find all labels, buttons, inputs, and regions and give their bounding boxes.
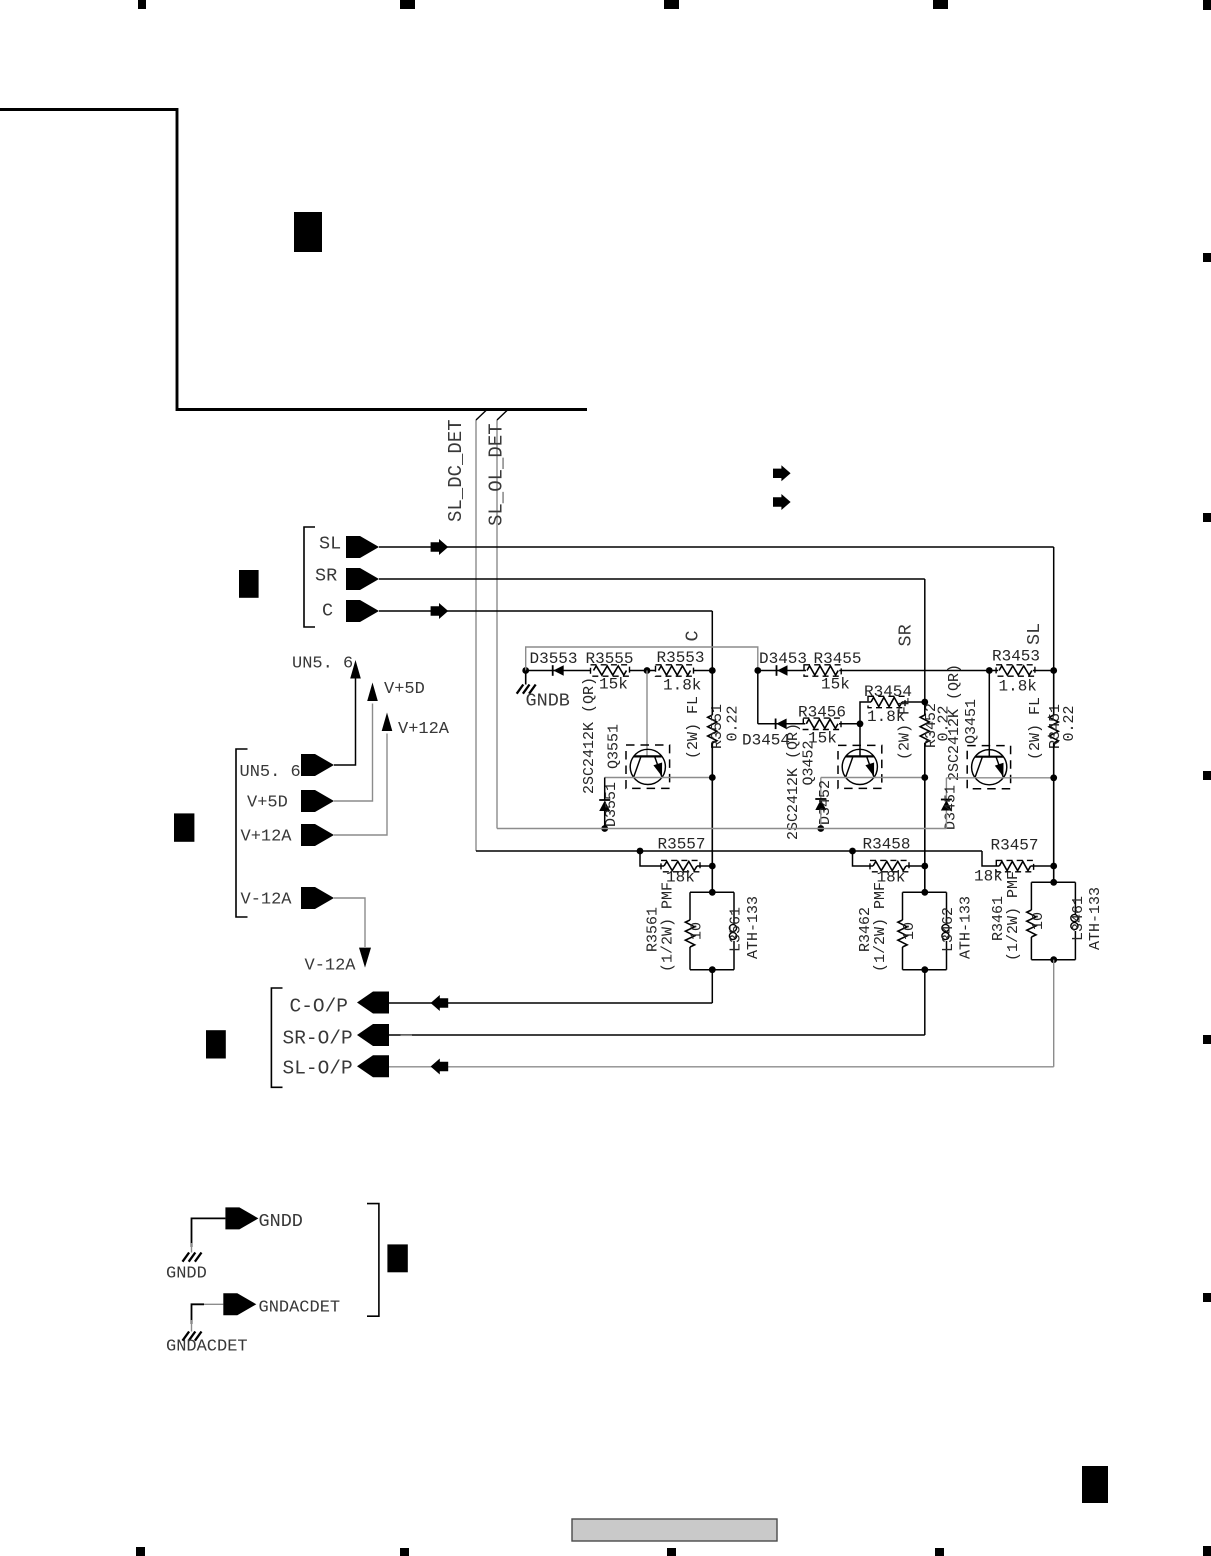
wire D3451 bottom gray (945, 811, 947, 829)
connector V-12A (301, 887, 334, 909)
transistor Q3551 (630, 749, 665, 784)
bottom right block (1082, 1466, 1108, 1503)
registration mark top 4 (933, 0, 948, 9)
wire D3452 bottom gray (820, 810, 822, 829)
wire SL-O/P gray (389, 1066, 1054, 1068)
wire D3452 top gray (820, 778, 822, 800)
connector SL (346, 536, 379, 558)
inductor L3561 (733, 892, 735, 924)
svg-text:V+5D: V+5D (384, 680, 425, 699)
connector SL-O/P (357, 1055, 389, 1077)
svg-text:UN5. 6: UN5. 6 (292, 654, 353, 673)
wire SL_OL_DET vertical (496, 420, 498, 829)
wire GNDACDET ground stub gray (191, 1320, 193, 1332)
marker square near inputs (239, 570, 259, 598)
L3561 R3561 parallel network (690, 891, 734, 893)
svg-text:ATH-133: ATH-133 (958, 896, 975, 959)
svg-text:1.8k: 1.8k (663, 677, 701, 695)
wire SL sense line mid (1053, 671, 1055, 716)
signal arrow on SL wire (431, 539, 449, 555)
resistor R3458 branch (853, 851, 874, 866)
svg-text:C: C (322, 601, 333, 622)
registration mark bottom 3 (667, 1548, 676, 1556)
transistor Q3451 (972, 750, 1007, 785)
svg-text:2SC2412K (QR): 2SC2412K (QR) (946, 664, 963, 781)
node SR base junction (857, 720, 864, 727)
wire C sense line mid (711, 671, 713, 716)
svg-text:10: 10 (1030, 912, 1047, 930)
dashed box R3453 (996, 665, 1035, 676)
wire Q3551 base gray (646, 671, 648, 757)
node L3462 top (921, 889, 928, 896)
wire SL output stub gray (1053, 960, 1055, 1067)
wire SL input (379, 546, 1054, 548)
L3462 R3462 parallel network (903, 891, 947, 893)
net entry slash SL_OL_DET (497, 410, 508, 420)
svg-text:GNDD: GNDD (166, 1265, 207, 1284)
dashed box R3454 (868, 696, 905, 707)
node GNDB junction (522, 667, 529, 674)
node C base junction (644, 667, 651, 674)
diode D3453 (776, 665, 778, 676)
resistor R3456 (805, 718, 839, 729)
node C line top (709, 667, 716, 674)
connector GNDACDET (223, 1293, 256, 1315)
dashed box Q3451 (967, 746, 1010, 789)
node SR line top (921, 699, 928, 706)
node R3557 left (637, 848, 644, 855)
connector V+12A (301, 824, 334, 846)
resistor R3454 branch (860, 702, 871, 724)
inductor L3461 (1074, 882, 1076, 914)
svg-text:R3456: R3456 (798, 704, 846, 722)
signal arrow on C wire (431, 603, 449, 619)
node C emitter (709, 774, 716, 781)
svg-text:L3462: L3462 (940, 907, 957, 952)
ground GNDB (525, 671, 527, 685)
dashed box Q3551 (626, 745, 670, 788)
wire GNDD ground stub gray (191, 1243, 193, 1253)
footer gray box (572, 1519, 777, 1541)
sheet border frame (0, 110, 587, 410)
svg-text:R3455: R3455 (814, 650, 862, 668)
wire SR row2 (758, 723, 860, 725)
marker square near grounds (387, 1244, 407, 1272)
wire C output stub (711, 970, 713, 1003)
svg-text:Q3451: Q3451 (963, 699, 980, 744)
power arrow V+5D (367, 683, 378, 702)
node L3461 bottom (1050, 956, 1057, 963)
wire C-O/P (389, 1002, 712, 1004)
power arrow UN5.6 (350, 660, 361, 679)
inductor L3462 (946, 892, 948, 924)
registration mark top 2 (400, 0, 415, 9)
power arrow V-12A down (359, 948, 371, 968)
resistor R3453 (998, 665, 1033, 676)
registration mark bottom 4 (935, 1548, 944, 1556)
wire D3551 bottom (604, 811, 606, 829)
dashed box R3555 (591, 665, 630, 676)
node D3452 on OL bus (817, 825, 824, 832)
resistor R3557 branch (640, 851, 664, 866)
svg-text:V+12A: V+12A (241, 828, 293, 847)
svg-text:SR: SR (896, 624, 917, 646)
svg-text:(2W) FL: (2W) FL (685, 696, 702, 759)
connector GNDD (225, 1207, 258, 1229)
transistor Q3452 (842, 749, 877, 784)
svg-text:L3461: L3461 (1070, 896, 1087, 941)
L3461 R3461 parallel network (1031, 881, 1075, 883)
wire gray C-link (526, 647, 758, 671)
wire SR sense line mid (924, 702, 926, 715)
svg-text:V-12A: V-12A (305, 957, 357, 976)
resistor R3455 (806, 665, 839, 676)
svg-text:R3553: R3553 (657, 649, 705, 667)
svg-text:SL_OL_DET: SL_OL_DET (486, 423, 508, 526)
node L3561 bottom (709, 966, 716, 973)
wire D3451 top gray (945, 778, 947, 800)
svg-text:SL-O/P: SL-O/P (283, 1058, 353, 1080)
connector C (346, 600, 379, 622)
svg-text:R3555: R3555 (586, 650, 634, 668)
svg-text:C-O/P: C-O/P (290, 996, 349, 1018)
diode D3551 (599, 799, 610, 801)
node SL base junction (986, 667, 993, 674)
registration mark top right corner (1203, 0, 1211, 10)
registration mark right edge 4 (1203, 1035, 1211, 1044)
resistor R3457 branch (982, 851, 999, 866)
svg-text:UN5. 6: UN5. 6 (240, 763, 301, 782)
wire SR input (379, 578, 925, 580)
svg-text:(2W) FL: (2W) FL (1027, 697, 1044, 760)
svg-text:15k: 15k (599, 676, 628, 694)
node D3551 on OL bus (601, 825, 608, 832)
wire C vertical drop (711, 611, 713, 671)
svg-text:V+12A: V+12A (398, 720, 450, 739)
resistor R3555 (591, 665, 630, 676)
wire V-12A (334, 898, 365, 947)
diode D3451 (941, 799, 952, 801)
resistor R3452 0.22 (920, 715, 929, 743)
marker square near power (174, 813, 194, 841)
off-page arrow 1 (773, 465, 791, 481)
wire SL sense row (989, 670, 1053, 672)
node L3561 top (709, 889, 716, 896)
marker square near outputs (206, 1030, 226, 1058)
svg-text:(1/2W) PMF: (1/2W) PMF (1005, 871, 1022, 961)
svg-text:(1/2W) PMF: (1/2W) PMF (660, 882, 677, 972)
diode D3454 (775, 719, 777, 730)
input group bracket (304, 527, 315, 627)
registration mark bottom 2 (400, 1548, 409, 1556)
resistor R3551 0.22 (708, 715, 717, 743)
wire GNDACDET corner (192, 1304, 205, 1324)
resistor R3451 0.22 (1049, 715, 1058, 743)
connector SR-O/P (357, 1024, 389, 1046)
svg-text:V+5D: V+5D (247, 794, 288, 813)
wire C input (379, 610, 712, 612)
svg-text:L3561: L3561 (728, 907, 745, 952)
wire V+12A (334, 734, 387, 836)
node L3462 bottom (921, 966, 928, 973)
ground group bracket (367, 1204, 379, 1317)
wire SR output stub (924, 970, 926, 1035)
svg-text:ATH-133: ATH-133 (1087, 887, 1104, 950)
registration mark right edge 2 (1203, 513, 1211, 522)
wire GNDD (192, 1218, 226, 1247)
registration mark bottom 1 (136, 1547, 145, 1556)
svg-text:SR: SR (315, 566, 337, 587)
svg-text:18k: 18k (974, 868, 1003, 886)
node SL line top (1050, 667, 1057, 674)
svg-text:2SC2412K (QR): 2SC2412K (QR) (785, 723, 802, 840)
node R3457 right (1050, 863, 1057, 870)
node R3458 right (921, 863, 928, 870)
registration mark top 1 (138, 0, 146, 9)
dashed box R3553 (656, 665, 694, 676)
dashed box R3455 (804, 665, 841, 676)
wire Q3452 base (859, 724, 861, 757)
dashed box R3457 (996, 860, 1033, 871)
wire V+5D (334, 704, 373, 802)
svg-text:SL: SL (319, 534, 341, 555)
signal arrow on SL-O/P wire (431, 1059, 449, 1075)
resistor R3553 (656, 665, 694, 676)
wire Q3551 collector-emitter gray (605, 777, 713, 779)
svg-text:0.22: 0.22 (1061, 705, 1078, 741)
svg-text:D3451: D3451 (943, 785, 960, 830)
svg-text:GNDACDET: GNDACDET (166, 1338, 248, 1357)
registration mark right edge 3 (1203, 771, 1211, 780)
node SR emitter (921, 774, 928, 781)
svg-text:2SC2412K (QR): 2SC2412K (QR) (581, 677, 598, 794)
node R3557 right (709, 863, 716, 870)
node SL emitter (1050, 774, 1057, 781)
wire C sense row (526, 670, 713, 672)
dashed box R3458 (870, 860, 909, 871)
registration mark right edge 1 (1203, 253, 1211, 262)
wire UN5.6 (334, 679, 356, 766)
wire SR diode column (757, 671, 759, 724)
registration mark top 3 (664, 0, 679, 9)
ground GNDACDET (183, 1332, 190, 1341)
svg-text:10: 10 (901, 922, 918, 940)
dashed box R3557 (661, 860, 700, 871)
power arrow V+12A (382, 713, 393, 732)
node L3461 top (1050, 879, 1057, 886)
wire SL_DC_DET vertical (475, 420, 477, 851)
net entry slash SL_DC_DET (476, 410, 487, 420)
svg-text:10: 10 (689, 922, 706, 940)
wire DC detect bus (476, 850, 982, 852)
dashed box R3456 (803, 718, 841, 729)
registration mark right edge 5 (1203, 1293, 1211, 1302)
signal arrow on C-O/P wire (431, 995, 449, 1011)
off-page arrow 2 (773, 494, 791, 510)
wire Q3452 collector-emitter gray (821, 777, 925, 779)
ground GNDD (183, 1253, 190, 1262)
svg-text:GNDB: GNDB (526, 691, 570, 712)
connector C-O/P (357, 992, 389, 1014)
svg-text:R3457: R3457 (991, 837, 1039, 855)
svg-text:D3553: D3553 (530, 650, 578, 668)
section marker block (294, 212, 322, 252)
svg-text:ATH-133: ATH-133 (745, 896, 762, 959)
diode D3553 (552, 665, 554, 676)
svg-text:D3452: D3452 (817, 780, 834, 825)
svg-text:SL: SL (1024, 623, 1045, 645)
svg-text:V-12A: V-12A (241, 891, 293, 910)
svg-text:Q3452: Q3452 (801, 740, 818, 785)
connector V+5D (301, 790, 334, 812)
svg-text:15k: 15k (821, 676, 850, 694)
svg-text:D3454: D3454 (742, 732, 790, 750)
svg-text:D3551: D3551 (603, 782, 620, 827)
svg-text:SL_DC_DET: SL_DC_DET (445, 419, 467, 522)
power group bracket (236, 749, 248, 917)
svg-text:GNDACDET: GNDACDET (259, 1299, 341, 1318)
wire SR sense row (758, 670, 990, 672)
node R3458 left (849, 848, 856, 855)
wire SR-O/P gray overlap dash (401, 1034, 413, 1036)
diode D3452 (815, 798, 826, 800)
svg-text:C: C (683, 630, 704, 641)
wire Q3451 base (988, 671, 990, 757)
svg-text:1.8k: 1.8k (999, 678, 1037, 696)
wire SR-O/P (389, 1034, 925, 1036)
wire OL detect bus gray (497, 828, 946, 830)
connector UN5.6 (301, 754, 334, 776)
node SR row left (754, 667, 761, 674)
output group bracket (271, 988, 282, 1087)
svg-text:R3453: R3453 (992, 648, 1040, 666)
svg-text:GNDD: GNDD (259, 1211, 303, 1232)
wire SR vertical drop (924, 579, 926, 702)
registration mark bottom right corner (1203, 1546, 1211, 1556)
wire SL vertical drop (1053, 547, 1055, 671)
svg-text:(2W) FL: (2W) FL (897, 697, 914, 760)
svg-text:Q3551: Q3551 (606, 724, 623, 769)
wire GNDACDET gray (203, 1303, 223, 1305)
wire Q3451 collector-emitter gray (946, 777, 1053, 779)
svg-text:(1/2W) PMF: (1/2W) PMF (872, 882, 889, 972)
wire D3551 top (604, 778, 606, 801)
connector SR (346, 568, 379, 590)
dashed box Q3452 (838, 745, 882, 788)
svg-text:SR-O/P: SR-O/P (283, 1028, 353, 1050)
svg-text:D3453: D3453 (759, 650, 807, 668)
svg-text:0.22: 0.22 (725, 705, 742, 741)
